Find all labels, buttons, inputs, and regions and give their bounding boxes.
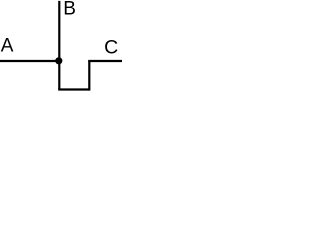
wire (bottom horizontal of detour): [58, 88, 89, 90]
wire B (vertical): [58, 1, 60, 90]
svg-text:C: C: [104, 36, 118, 58]
junction dot: [55, 57, 62, 64]
svg-text:B: B: [63, 0, 76, 19]
wire A (left horizontal): [0, 60, 59, 62]
svg-text:A: A: [1, 36, 14, 57]
wire C (right horizontal): [88, 60, 122, 62]
wire (right vertical of detour): [88, 61, 90, 91]
